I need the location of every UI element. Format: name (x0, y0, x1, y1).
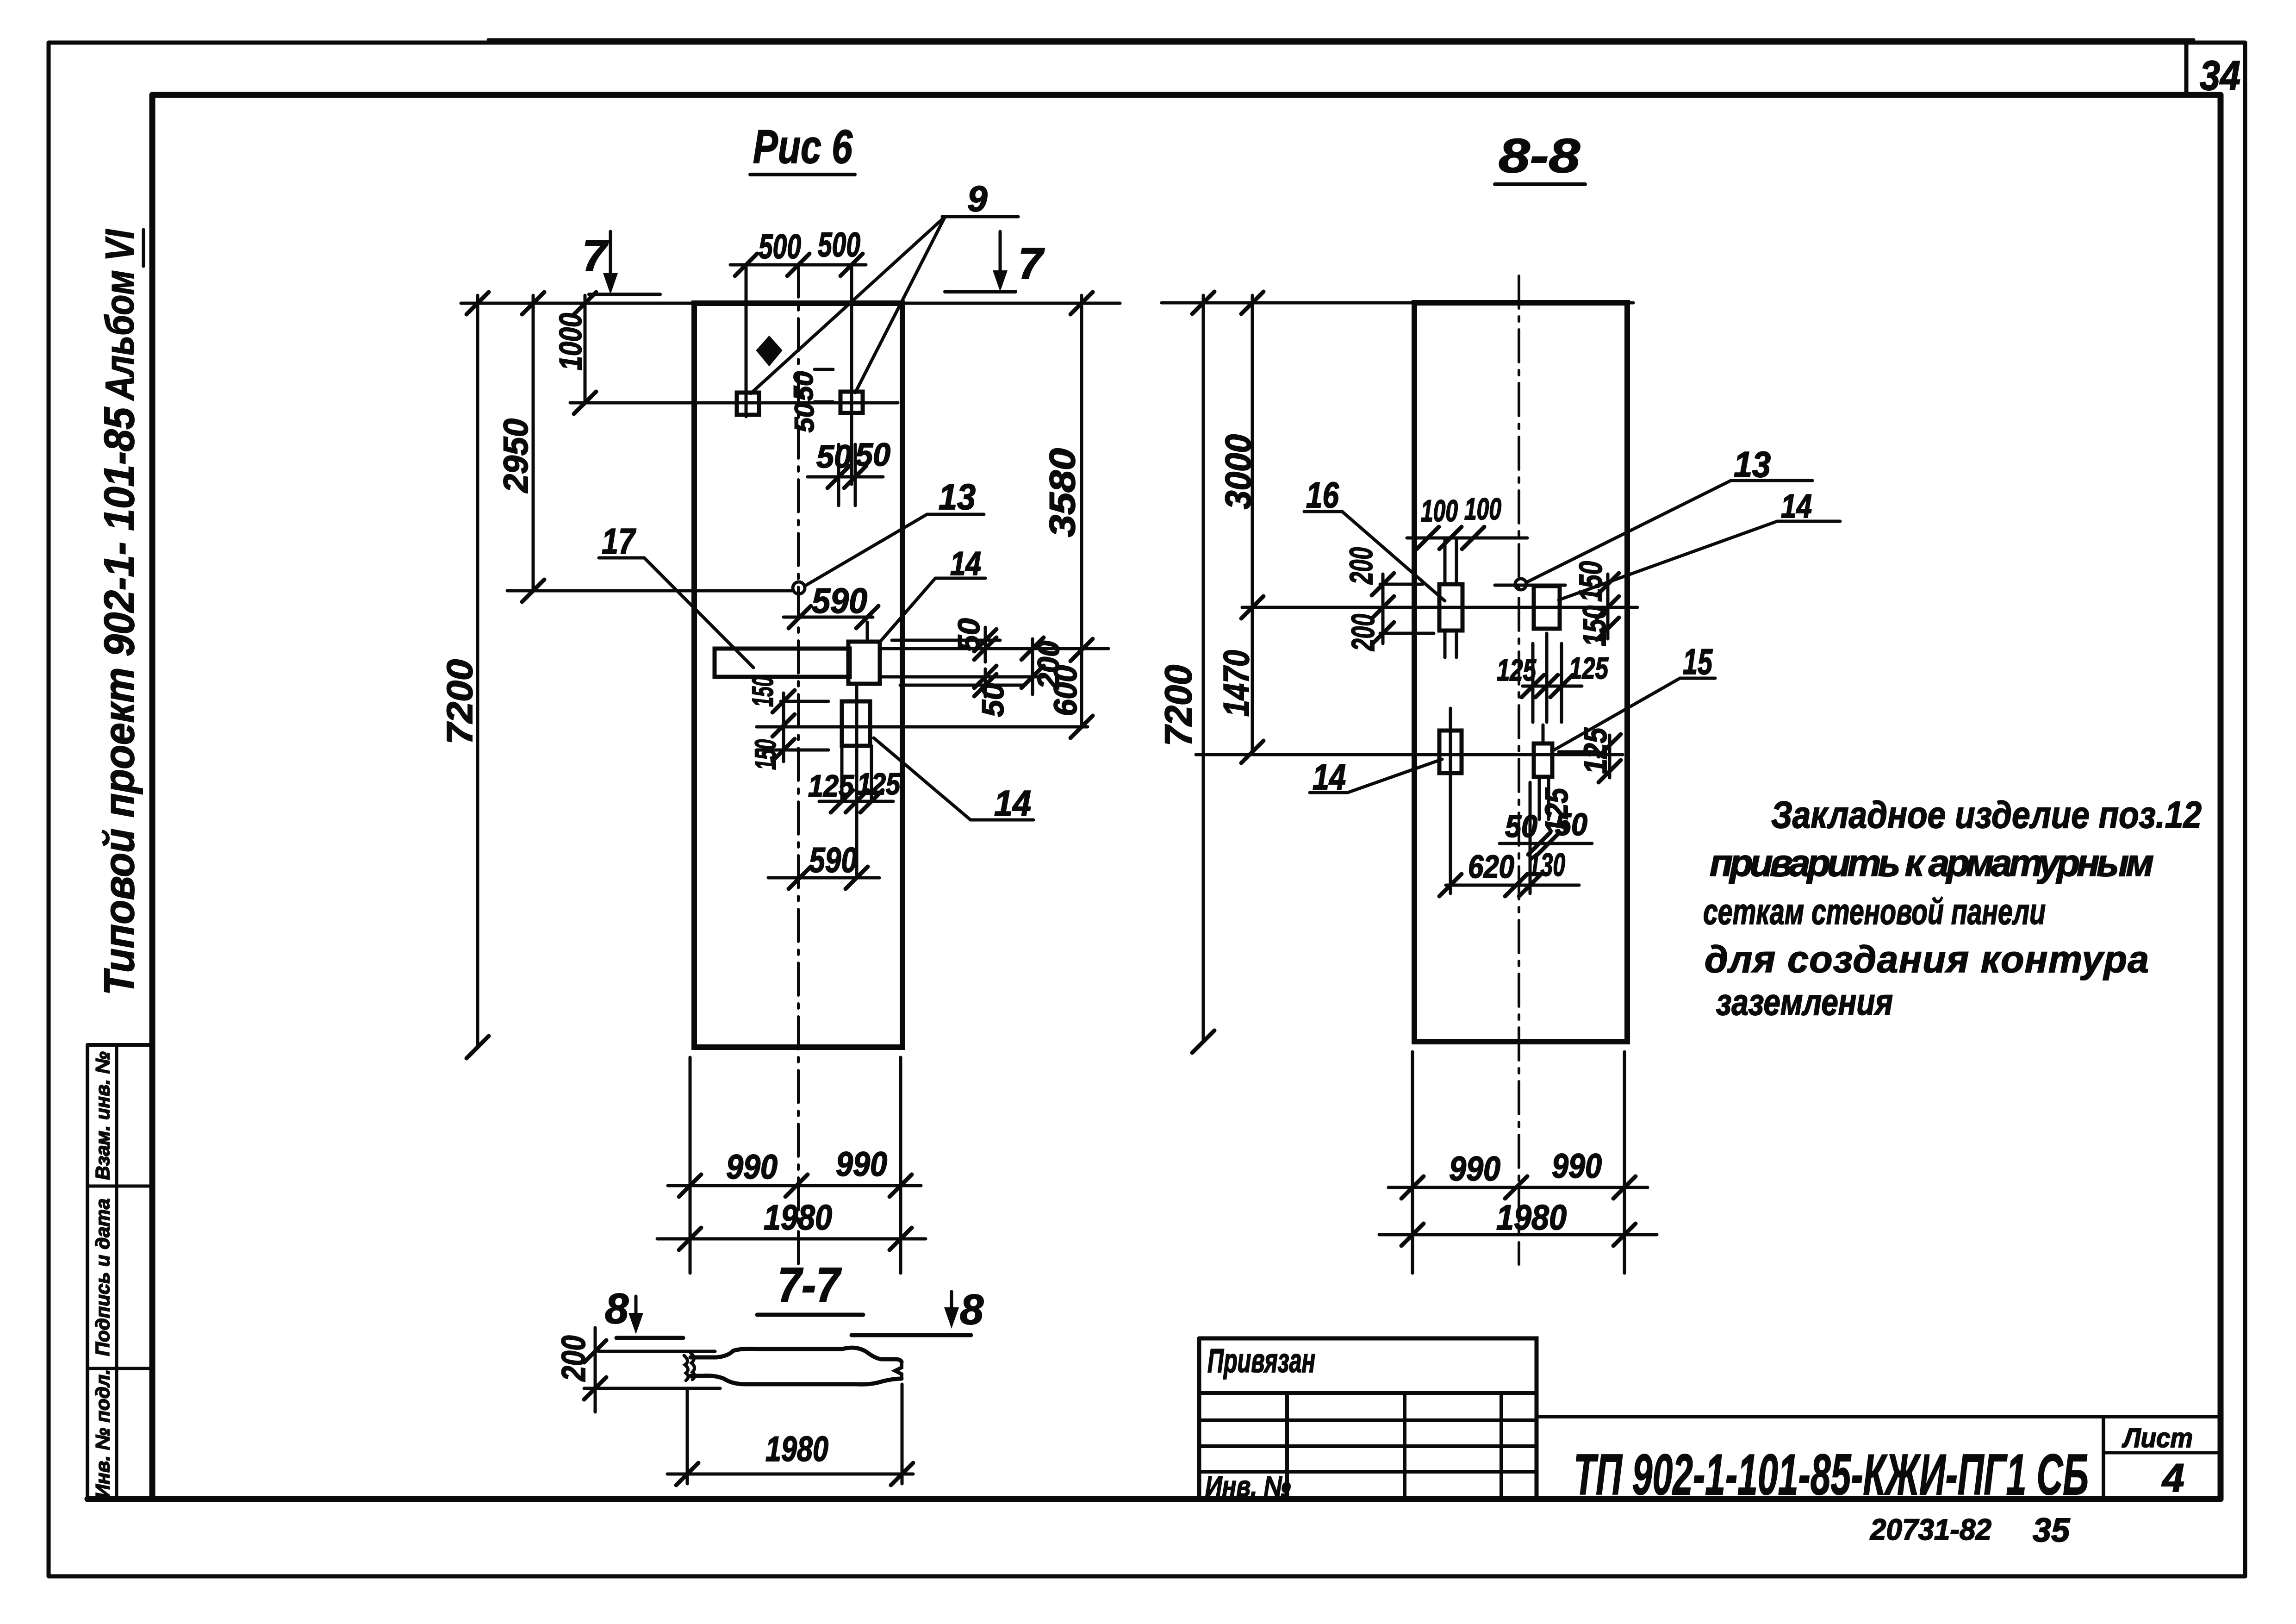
svg-text:14: 14 (1781, 488, 1812, 525)
svg-text:1000: 1000 (553, 313, 588, 370)
svg-text:130: 130 (1528, 847, 1565, 883)
svg-text:Взам. инв. №: Взам. инв. № (92, 1051, 113, 1180)
svg-text:50: 50 (1555, 807, 1587, 842)
svg-text:20731-82: 20731-82 (1870, 1513, 1991, 1546)
svg-text:4: 4 (2161, 1456, 2184, 1500)
svg-text:35: 35 (2033, 1512, 2070, 1549)
svg-text:Лист: Лист (2122, 1423, 2193, 1453)
svg-text:150: 150 (1573, 561, 1609, 602)
svg-text:15: 15 (1683, 641, 1713, 682)
svg-text:Альбом VI: Альбом VI (98, 229, 142, 400)
svg-text:7-7: 7-7 (778, 1258, 842, 1312)
svg-text:7200: 7200 (439, 659, 480, 744)
svg-text:150: 150 (749, 739, 782, 770)
svg-text:150: 150 (746, 676, 779, 707)
svg-text:990: 990 (1449, 1149, 1500, 1188)
svg-text:9: 9 (967, 178, 988, 219)
svg-text:34: 34 (2200, 53, 2240, 99)
svg-text:7200: 7200 (1157, 665, 1200, 746)
svg-text:8: 8 (960, 1286, 984, 1333)
svg-text:заземления: заземления (1716, 981, 1893, 1023)
svg-text:3000: 3000 (1218, 434, 1258, 509)
svg-text:16: 16 (1306, 475, 1339, 515)
svg-text:1470: 1470 (1216, 650, 1257, 717)
svg-text:Подпись и дата: Подпись и дата (92, 1199, 113, 1356)
svg-text:150: 150 (1576, 606, 1612, 646)
svg-text:8-8: 8-8 (1499, 129, 1580, 183)
svg-text:500: 500 (759, 227, 801, 266)
svg-text:Рис 6: Рис 6 (753, 120, 853, 173)
svg-text:Типовой проект 902-1- 101-85: Типовой проект 902-1- 101-85 (96, 406, 143, 995)
svg-text:13: 13 (939, 476, 976, 517)
svg-text:Инв. №: Инв. № (1205, 1471, 1291, 1503)
svg-text:500: 500 (818, 225, 860, 264)
svg-text:1980: 1980 (765, 1430, 828, 1469)
svg-text:14: 14 (994, 783, 1031, 824)
svg-text:17: 17 (602, 521, 636, 562)
svg-text:125: 125 (1497, 653, 1537, 687)
svg-text:50: 50 (976, 683, 1010, 717)
svg-text:990: 990 (836, 1145, 887, 1183)
svg-text:590: 590 (809, 841, 857, 880)
svg-text:990: 990 (726, 1148, 778, 1186)
svg-text:200: 200 (1343, 547, 1379, 585)
svg-text:50: 50 (855, 437, 890, 473)
svg-text:620: 620 (1468, 849, 1514, 885)
svg-text:100: 100 (1464, 492, 1501, 526)
svg-text:2950: 2950 (497, 418, 535, 493)
svg-text:13: 13 (1734, 444, 1771, 485)
svg-text:приварить к арматурным: приварить к арматурным (1710, 842, 2154, 884)
svg-text:8: 8 (605, 1285, 629, 1332)
svg-text:7: 7 (582, 231, 609, 281)
svg-text:590: 590 (812, 581, 867, 621)
svg-text:7: 7 (1018, 239, 1045, 288)
svg-text:Привязан: Привязан (1207, 1343, 1315, 1380)
svg-text:Инв. № подл.: Инв. № подл. (92, 1369, 113, 1498)
svg-text:3580: 3580 (1042, 448, 1083, 537)
svg-text:50: 50 (1505, 809, 1537, 844)
svg-text:125: 125 (1569, 651, 1609, 685)
svg-text:Закладное изделие поз.12: Закладное изделие поз.12 (1771, 794, 2202, 836)
svg-text:1980: 1980 (764, 1198, 832, 1237)
svg-text:1980: 1980 (1496, 1198, 1567, 1237)
svg-text:для создания контура: для создания контура (1705, 938, 2149, 981)
svg-text:сеткам стеновой панели: сеткам стеновой панели (1703, 891, 2046, 932)
svg-text:600: 600 (1047, 665, 1083, 716)
svg-text:990: 990 (1552, 1147, 1602, 1185)
svg-text:ТП 902-1-101-85-КЖИ-ПГ1 СБ: ТП 902-1-101-85-КЖИ-ПГ1 СБ (1574, 1443, 2089, 1507)
svg-text:50: 50 (952, 618, 986, 652)
svg-text:50: 50 (789, 371, 819, 401)
svg-text:200: 200 (555, 1336, 592, 1382)
svg-text:100: 100 (1421, 493, 1458, 528)
svg-text:50: 50 (790, 403, 820, 433)
svg-text:200: 200 (1345, 614, 1381, 651)
